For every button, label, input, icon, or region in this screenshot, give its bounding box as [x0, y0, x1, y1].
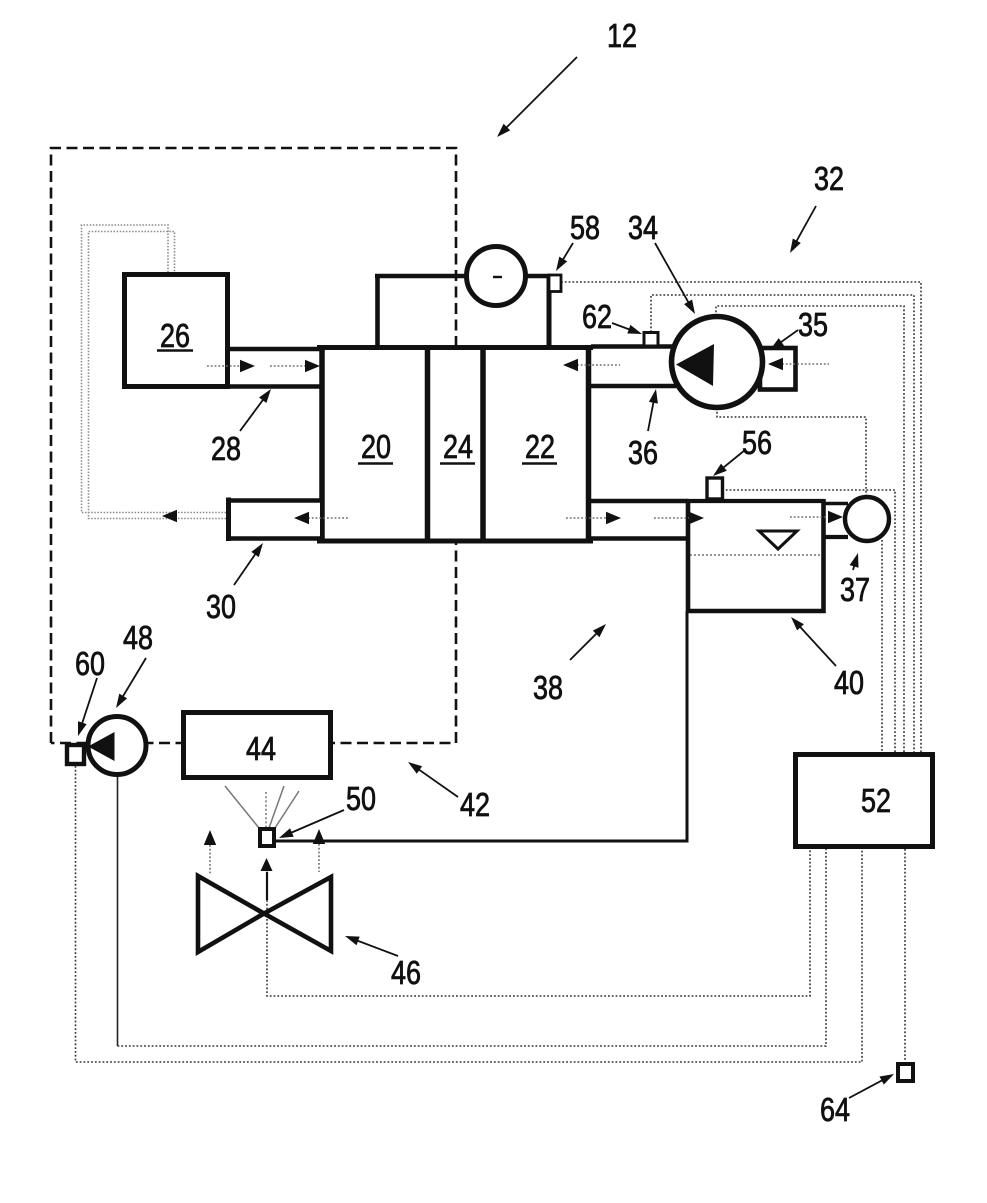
spray line right	[275, 791, 299, 828]
injector 50	[260, 829, 274, 846]
tail duct26-20 arrow b	[270, 365, 307, 367]
sensor 64	[898, 1064, 913, 1081]
motor 37 circle	[845, 497, 889, 541]
label arrow 50	[288, 810, 344, 834]
control line motor 37 to controller 52	[881, 540, 883, 752]
control line valve 46 to controller 52	[267, 849, 810, 996]
label arrow 38	[570, 631, 599, 660]
control line pump 48 to controller 52	[117, 777, 119, 1046]
svg-text:56: 56	[742, 424, 772, 461]
svg-text:32: 32	[814, 160, 844, 197]
box 35	[760, 348, 796, 390]
label arrow 32	[795, 206, 816, 244]
svg-text:64: 64	[820, 1091, 850, 1128]
label arrow 36	[648, 399, 654, 431]
control line pump 34 to motor 37	[717, 408, 866, 496]
label arrow 37	[853, 563, 855, 570]
label arrow 58	[561, 243, 573, 263]
box35 inlet arrow	[768, 358, 783, 370]
sensor 60	[67, 745, 84, 764]
tail duct30 arrow	[308, 517, 350, 519]
duct26-20 arrow b	[305, 360, 320, 372]
into-40 arrow	[689, 512, 704, 524]
upflow L arrow	[204, 830, 216, 845]
upflow R arrow	[313, 829, 325, 844]
tail duct26-20 arrow a	[207, 365, 242, 367]
flow arrow tails (gray dotted)	[207, 364, 829, 874]
label arrow 60	[81, 678, 97, 727]
svg-text:44: 44	[246, 730, 276, 767]
valve-up arrow shaft	[266, 872, 268, 900]
controller box 52	[796, 755, 933, 847]
svg-text:58: 58	[570, 209, 600, 246]
control line 62 to controller 52	[651, 295, 914, 752]
enclosure 12 dashed border	[51, 148, 456, 743]
label arrow 64	[849, 1079, 885, 1098]
water drain line box 40 to injector 50	[276, 611, 687, 841]
tail upflow L arrow	[209, 845, 211, 874]
duct22-40 arrow	[606, 512, 621, 524]
upper duct 28 (26 to 20)	[228, 347, 320, 352]
spray line mid-right	[269, 786, 284, 828]
svg-text:46: 46	[391, 954, 421, 991]
tail upflow R arrow	[318, 844, 320, 872]
water level symbol in 40	[759, 531, 797, 549]
tail duct22-40 arrow	[566, 517, 607, 519]
40-37 arrow	[828, 511, 843, 523]
svg-text:22: 22	[525, 428, 555, 465]
label arrow 12	[504, 57, 577, 130]
svg-text:52: 52	[861, 782, 891, 819]
box 26	[125, 275, 228, 387]
duct 40 to motor 37	[824, 502, 848, 506]
svg-text:20: 20	[361, 428, 391, 465]
svg-text:26: 26	[160, 317, 190, 354]
label arrow 56	[721, 450, 745, 470]
label arrow 46	[354, 940, 398, 957]
spray line middle dotted	[265, 792, 267, 827]
label arrow 48	[121, 658, 146, 699]
valve-up arrow	[261, 858, 273, 871]
sensor 62	[644, 333, 658, 347]
spray lines 44 to injector 50	[225, 786, 299, 828]
lower duct 30 outlet	[226, 498, 320, 542]
svg-text:42: 42	[460, 786, 490, 823]
label arrow 34	[655, 243, 690, 305]
duct30 arrow	[294, 512, 309, 524]
box 44	[184, 713, 331, 778]
control line 56 to controller 52	[722, 490, 895, 752]
svg-text:40: 40	[834, 664, 864, 701]
valve 46	[198, 876, 264, 952]
exhaust arrow	[162, 510, 177, 522]
control line pump 34 to controller 52	[716, 306, 904, 752]
sensor 56	[707, 478, 723, 499]
separator box 40	[686, 499, 826, 613]
svg-text:62: 62	[582, 298, 612, 335]
svg-text:28: 28	[211, 430, 241, 467]
spray line left	[225, 786, 259, 828]
upper right duct (22 to pump 34)	[591, 344, 676, 349]
air hood above stack	[375, 274, 551, 345]
label arrow 62	[612, 323, 633, 331]
svg-text:34: 34	[628, 209, 658, 246]
fuel cell stack assembly 20/24/22	[317, 345, 593, 544]
control line controller 52 to sensor 64	[904, 849, 906, 1060]
lower right duct (22 to separator 40)	[591, 499, 688, 504]
pump 34	[672, 317, 763, 408]
svg-text:12: 12	[607, 17, 637, 54]
tail 40-37 arrow	[790, 516, 829, 518]
tail box35 inlet arrow	[782, 363, 829, 365]
svg-text:37: 37	[840, 571, 870, 608]
label arrow 28	[240, 397, 265, 431]
sensor 58	[549, 275, 561, 292]
label arrow 42	[416, 768, 458, 797]
duct22-pump arrow	[563, 359, 578, 371]
svg-text:50: 50	[346, 780, 376, 817]
tail duct22-pump arrow	[577, 364, 620, 366]
svg-text:35: 35	[798, 306, 828, 343]
svg-text:48: 48	[123, 619, 153, 656]
svg-text:36: 36	[628, 434, 658, 471]
svg-text:24: 24	[443, 428, 473, 465]
label arrow 40	[798, 624, 836, 666]
tail into-40 arrow	[654, 517, 690, 519]
label arrow 35	[778, 330, 798, 344]
svg-text:38: 38	[533, 669, 563, 706]
control line 58 to controller 52	[561, 282, 921, 752]
duct26-20 arrow a	[240, 360, 255, 372]
control line sensor 60 to controller 52	[76, 766, 863, 1062]
label arrow 30	[234, 551, 257, 585]
svg-text:30: 30	[206, 588, 236, 625]
exhaust pipe (gray double dotted) from duct 30 to box 26	[82, 225, 227, 513]
AC machine circle (compressor drive)	[467, 247, 526, 306]
svg-text:60: 60	[75, 645, 105, 682]
pump 48	[88, 717, 146, 775]
